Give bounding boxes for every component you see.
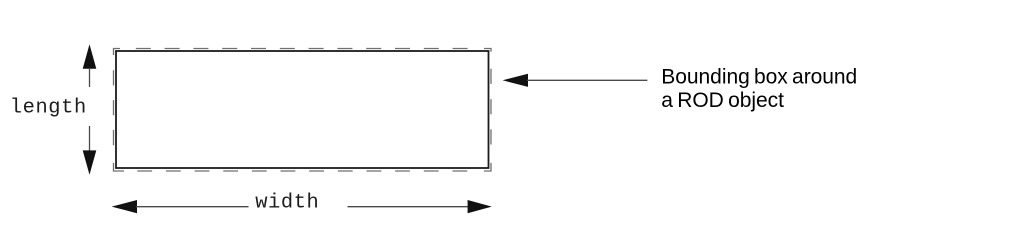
svg-text:length: length [10,97,87,120]
svg-text:Bounding box around: Bounding box around [661,65,857,88]
svg-text:a ROD object: a ROD object [661,89,784,112]
svg-text:width: width [255,191,319,214]
